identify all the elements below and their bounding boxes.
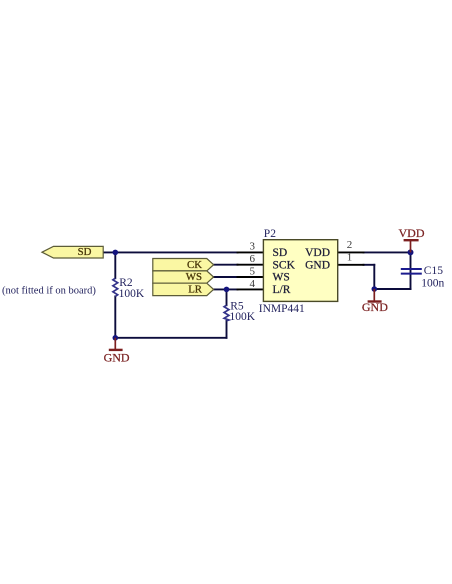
svg-text:CK: CK [187, 259, 202, 271]
svg-text:SCK: SCK [273, 259, 296, 271]
svg-text:L/R: L/R [273, 284, 291, 296]
svg-text:100n: 100n [421, 278, 444, 290]
svg-text:5: 5 [250, 266, 256, 278]
svg-text:4: 4 [250, 278, 256, 290]
svg-text:GND: GND [362, 300, 388, 314]
svg-text:100K: 100K [119, 288, 145, 300]
svg-text:(not fitted if on board): (not fitted if on board) [2, 285, 96, 296]
svg-text:C15: C15 [424, 265, 443, 277]
svg-text:1: 1 [347, 251, 353, 263]
svg-text:P2: P2 [264, 228, 276, 240]
svg-text:VDD: VDD [399, 226, 425, 240]
svg-text:3: 3 [250, 241, 256, 253]
svg-text:SD: SD [78, 246, 92, 258]
svg-text:WS: WS [186, 271, 202, 283]
svg-text:R2: R2 [119, 277, 133, 289]
svg-text:SD: SD [273, 247, 288, 259]
svg-text:LR: LR [188, 283, 203, 295]
svg-text:GND: GND [305, 259, 330, 271]
svg-text:VDD: VDD [305, 247, 330, 259]
svg-text:6: 6 [250, 253, 256, 265]
svg-text:2: 2 [347, 239, 353, 251]
svg-text:INMP441: INMP441 [259, 303, 305, 315]
svg-text:WS: WS [273, 272, 290, 284]
svg-text:GND: GND [104, 351, 130, 365]
svg-text:100K: 100K [230, 311, 256, 323]
